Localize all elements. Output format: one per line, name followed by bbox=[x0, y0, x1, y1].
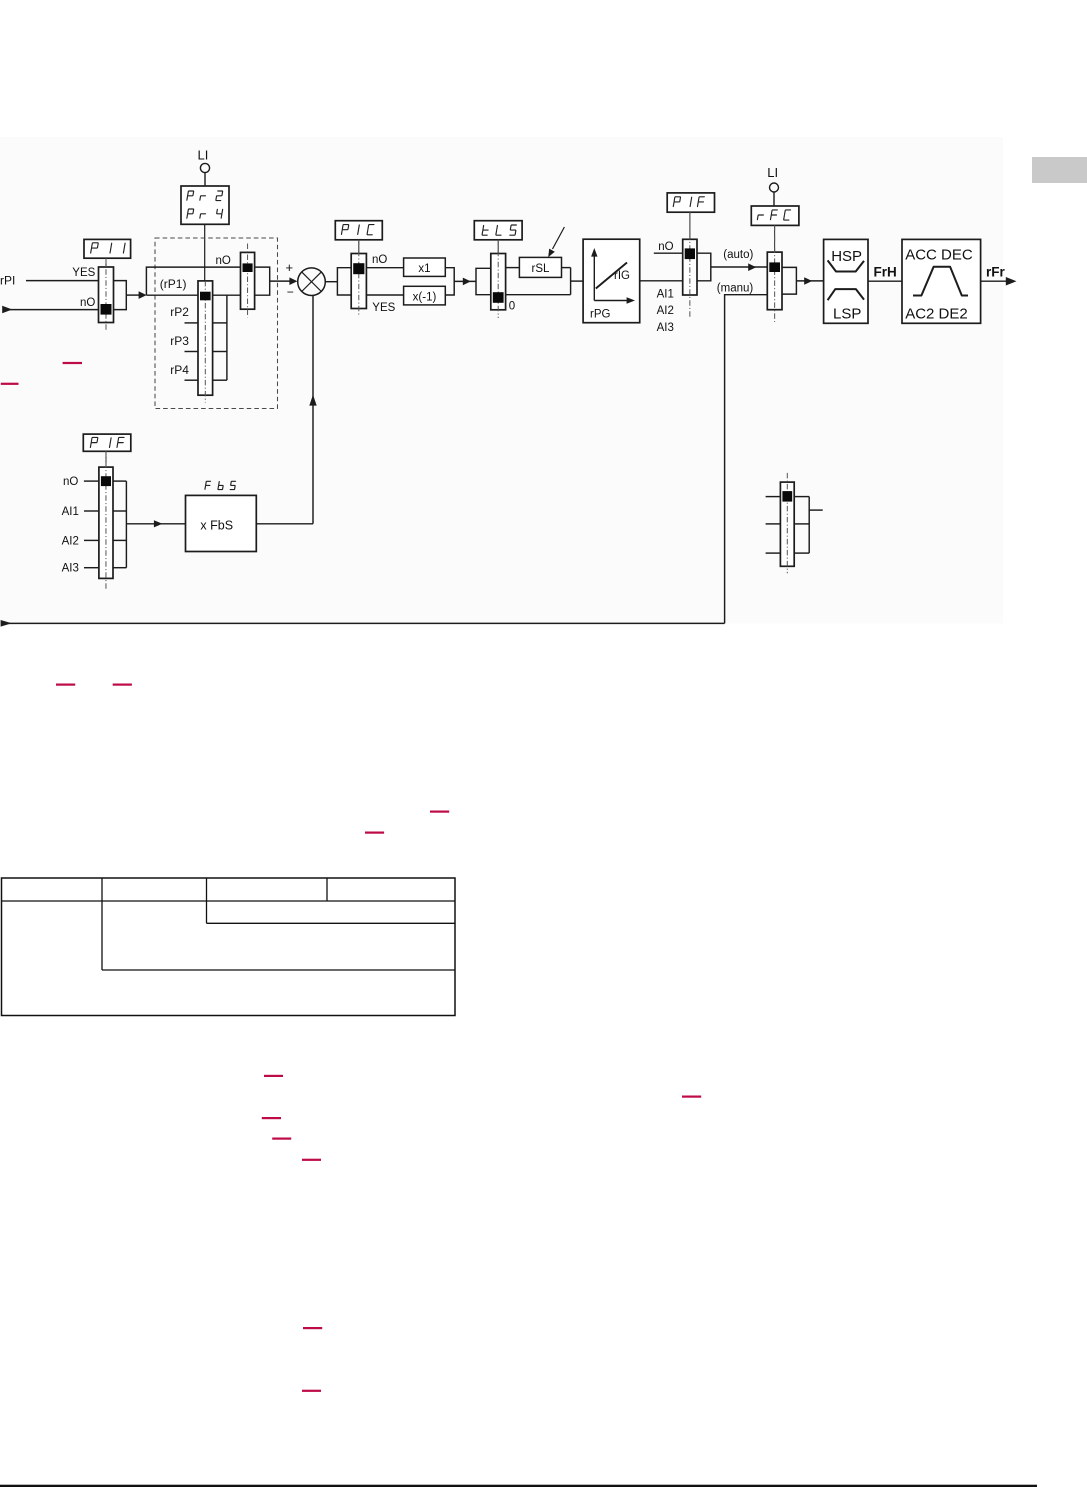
svg-text:rPG: rPG bbox=[590, 309, 611, 321]
svg-text:x1: x1 bbox=[418, 263, 430, 275]
label PIF (7-segment display box, feedback) bbox=[83, 434, 131, 451]
wire PII switch output bracket and arrow bbox=[114, 281, 147, 310]
svg-text:LI: LI bbox=[767, 165, 778, 180]
wire PIC box to switch bbox=[358, 240, 360, 254]
wire tLS box to switch bbox=[497, 240, 499, 254]
wire PII box to switch bbox=[105, 258, 107, 267]
switch PIF (auto reference selector) bbox=[683, 239, 697, 295]
wire PIC left input bracket bbox=[337, 268, 351, 295]
svg-text:AI2: AI2 bbox=[62, 535, 79, 547]
wire PIF box to switch bbox=[689, 212, 691, 239]
dashed box (preset PI references group) bbox=[155, 238, 278, 409]
svg-text:0: 0 bbox=[509, 301, 515, 313]
label nO (feedback) and stub bbox=[63, 476, 99, 488]
link underline 9 bbox=[302, 1159, 321, 1161]
wire PIF feedback box to switch bbox=[105, 451, 107, 467]
wire tLS to rSL block bbox=[506, 267, 520, 269]
svg-text:AI2: AI2 bbox=[657, 305, 674, 317]
label rP2 and stub bbox=[170, 305, 198, 323]
link underline 3 bbox=[430, 811, 449, 813]
svg-text:FrH: FrH bbox=[874, 264, 897, 279]
block ACC/DEC (ramps) bbox=[902, 239, 981, 323]
link underline 7 bbox=[262, 1117, 281, 1119]
wire manu input and riser from feedback line bbox=[725, 295, 768, 624]
svg-text:rP4: rP4 bbox=[170, 363, 189, 377]
link underline rPI bbox=[1, 383, 19, 385]
wire feedback switch bracket and arrow to FbS bbox=[113, 481, 186, 568]
link underline 5 bbox=[264, 1075, 283, 1077]
wire rFC output bracket and arrow bbox=[782, 267, 824, 294]
wire summation to PIC bracket bbox=[325, 281, 337, 283]
wire nO branch inside dashed box bbox=[146, 267, 240, 295]
switch tLS (low speed time-out) bbox=[491, 254, 506, 310]
svg-text:nO: nO bbox=[372, 254, 387, 266]
label rFC (7-segment display box) bbox=[751, 206, 799, 225]
block Pr2/Pr4 (preset reference logic inputs) bbox=[181, 186, 229, 224]
svg-text:−: − bbox=[287, 285, 294, 299]
svg-text:AI1: AI1 bbox=[657, 289, 674, 301]
link underline 4 bbox=[365, 832, 384, 834]
wire HSP to ACC block bbox=[868, 280, 902, 282]
switch U1 PII (internal PI reference selector) bbox=[99, 267, 114, 323]
switch PIF (PI feedback selector nO/AI1/AI2/AI3) bbox=[99, 467, 113, 578]
wire FbS output to summing point (minus input) bbox=[256, 296, 316, 524]
svg-text:rP2: rP2 bbox=[170, 305, 189, 319]
wire PI feedback return (bottom long line) with edge arrow bbox=[1, 620, 725, 627]
label rP3 and stub bbox=[170, 334, 198, 352]
link underline 6 bbox=[682, 1096, 701, 1098]
wire tLS left input bracket bbox=[476, 268, 491, 294]
svg-text:HSP: HSP bbox=[831, 248, 862, 265]
label nO (PIF auto) and stub bbox=[654, 241, 683, 253]
wire rSL merge bracket to rPG bbox=[562, 268, 584, 295]
switch rP2/rP3/rP4 (preset reference selector) bbox=[198, 281, 213, 395]
svg-text:(manu): (manu) bbox=[717, 283, 754, 295]
svg-text:LI: LI bbox=[198, 148, 209, 163]
svg-text:rP3: rP3 bbox=[170, 334, 189, 348]
label PIC (7-segment display box) bbox=[335, 221, 382, 240]
wire rP selector output bracket bbox=[213, 295, 227, 380]
svg-text:nO: nO bbox=[216, 255, 231, 267]
block x(-1) bbox=[404, 286, 446, 305]
label tLS (7-segment display box) bbox=[474, 221, 522, 240]
wire tLS zero output bbox=[506, 294, 571, 296]
svg-text:x FbS: x FbS bbox=[200, 518, 233, 532]
wire nO to x1 block bbox=[366, 267, 403, 269]
link underline 8 bbox=[272, 1138, 291, 1140]
wire rFr output arrow bbox=[981, 277, 1017, 286]
svg-text:rIG: rIG bbox=[614, 270, 630, 282]
wire rFC box to switch bbox=[774, 225, 776, 252]
svg-text:x(-1): x(-1) bbox=[413, 292, 437, 304]
switch rFC (manual/auto changeover) bbox=[767, 252, 782, 310]
footer rule bbox=[0, 1485, 1037, 1487]
svg-text:nO: nO bbox=[658, 241, 673, 253]
block x FbS (feedback multiplier) bbox=[186, 495, 257, 551]
switch (legend key, unlabelled selector) bbox=[766, 473, 823, 573]
svg-text:YES: YES bbox=[372, 302, 395, 314]
svg-text:+: + bbox=[286, 260, 294, 275]
label AI1 (feedback) and stub bbox=[62, 506, 99, 518]
link underline 10 bbox=[303, 1327, 322, 1329]
link underline 11 bbox=[302, 1390, 321, 1392]
block rPG/rIG (PI gain) bbox=[583, 239, 640, 323]
svg-text:nO: nO bbox=[63, 476, 78, 488]
wire Pr2/Pr4 box to rP selector bbox=[204, 224, 206, 281]
wire rPI input bbox=[26, 280, 99, 282]
svg-text:AC2 DE2: AC2 DE2 bbox=[905, 305, 968, 322]
svg-text:ACC DEC: ACC DEC bbox=[905, 247, 973, 264]
label rP4 and stub bbox=[170, 363, 198, 380]
wire x1/x(-1) merge bracket and arrow bbox=[445, 268, 476, 295]
svg-text:AI1: AI1 bbox=[62, 506, 79, 518]
table (parameter structure, staircase merged cells) bbox=[2, 878, 456, 1016]
svg-text:rSL: rSL bbox=[532, 263, 551, 275]
wire rPG to PIF auto switch bbox=[640, 280, 683, 282]
svg-text:rPI: rPI bbox=[0, 273, 15, 287]
wire PIF output bracket and auto arrow bbox=[697, 253, 767, 281]
wire preset switch output bracket and arrow to summing point bbox=[255, 267, 298, 295]
svg-text:rFr: rFr bbox=[986, 264, 1006, 279]
switch preset-enable (nO position) bbox=[241, 252, 255, 309]
link underline PII bbox=[63, 362, 82, 364]
page tab (grey index marker) bbox=[1032, 157, 1087, 183]
svg-text:nO: nO bbox=[80, 297, 95, 309]
wire YES to x(-1) block bbox=[366, 294, 403, 296]
pointer arrow to rSL (restart error threshold) bbox=[548, 227, 564, 257]
svg-text:AI3: AI3 bbox=[657, 322, 674, 334]
block HSP/LSP (speed limits) bbox=[824, 239, 868, 323]
wire rP1 line bbox=[146, 294, 240, 296]
label AI3 (feedback) and stub bbox=[62, 563, 99, 575]
label PII (7-segment display box) bbox=[84, 239, 131, 258]
node LI (logic input for rFC) bbox=[767, 165, 778, 206]
block x1 bbox=[404, 258, 446, 276]
svg-text:(rP1): (rP1) bbox=[160, 277, 187, 291]
svg-text:AI3: AI3 bbox=[62, 563, 79, 575]
svg-text:YES: YES bbox=[72, 267, 95, 279]
wire nO input (from terminals) with edge arrow bbox=[2, 306, 98, 314]
svg-text:LSP: LSP bbox=[833, 305, 861, 322]
label AI2 (feedback) and stub bbox=[62, 535, 99, 547]
summing junction bbox=[298, 268, 326, 296]
node LI (logic input for Pr2/Pr4) bbox=[198, 148, 210, 187]
link underline 1 bbox=[56, 684, 75, 686]
svg-text:(auto): (auto) bbox=[723, 249, 753, 261]
block rSL bbox=[519, 257, 561, 277]
link underline 2 bbox=[113, 684, 132, 686]
label PIF (7-segment display box, auto/manu) bbox=[667, 193, 714, 212]
label FbS (7-segment) bbox=[205, 481, 211, 489]
switch PIC (PI inversion selector) bbox=[351, 254, 366, 309]
